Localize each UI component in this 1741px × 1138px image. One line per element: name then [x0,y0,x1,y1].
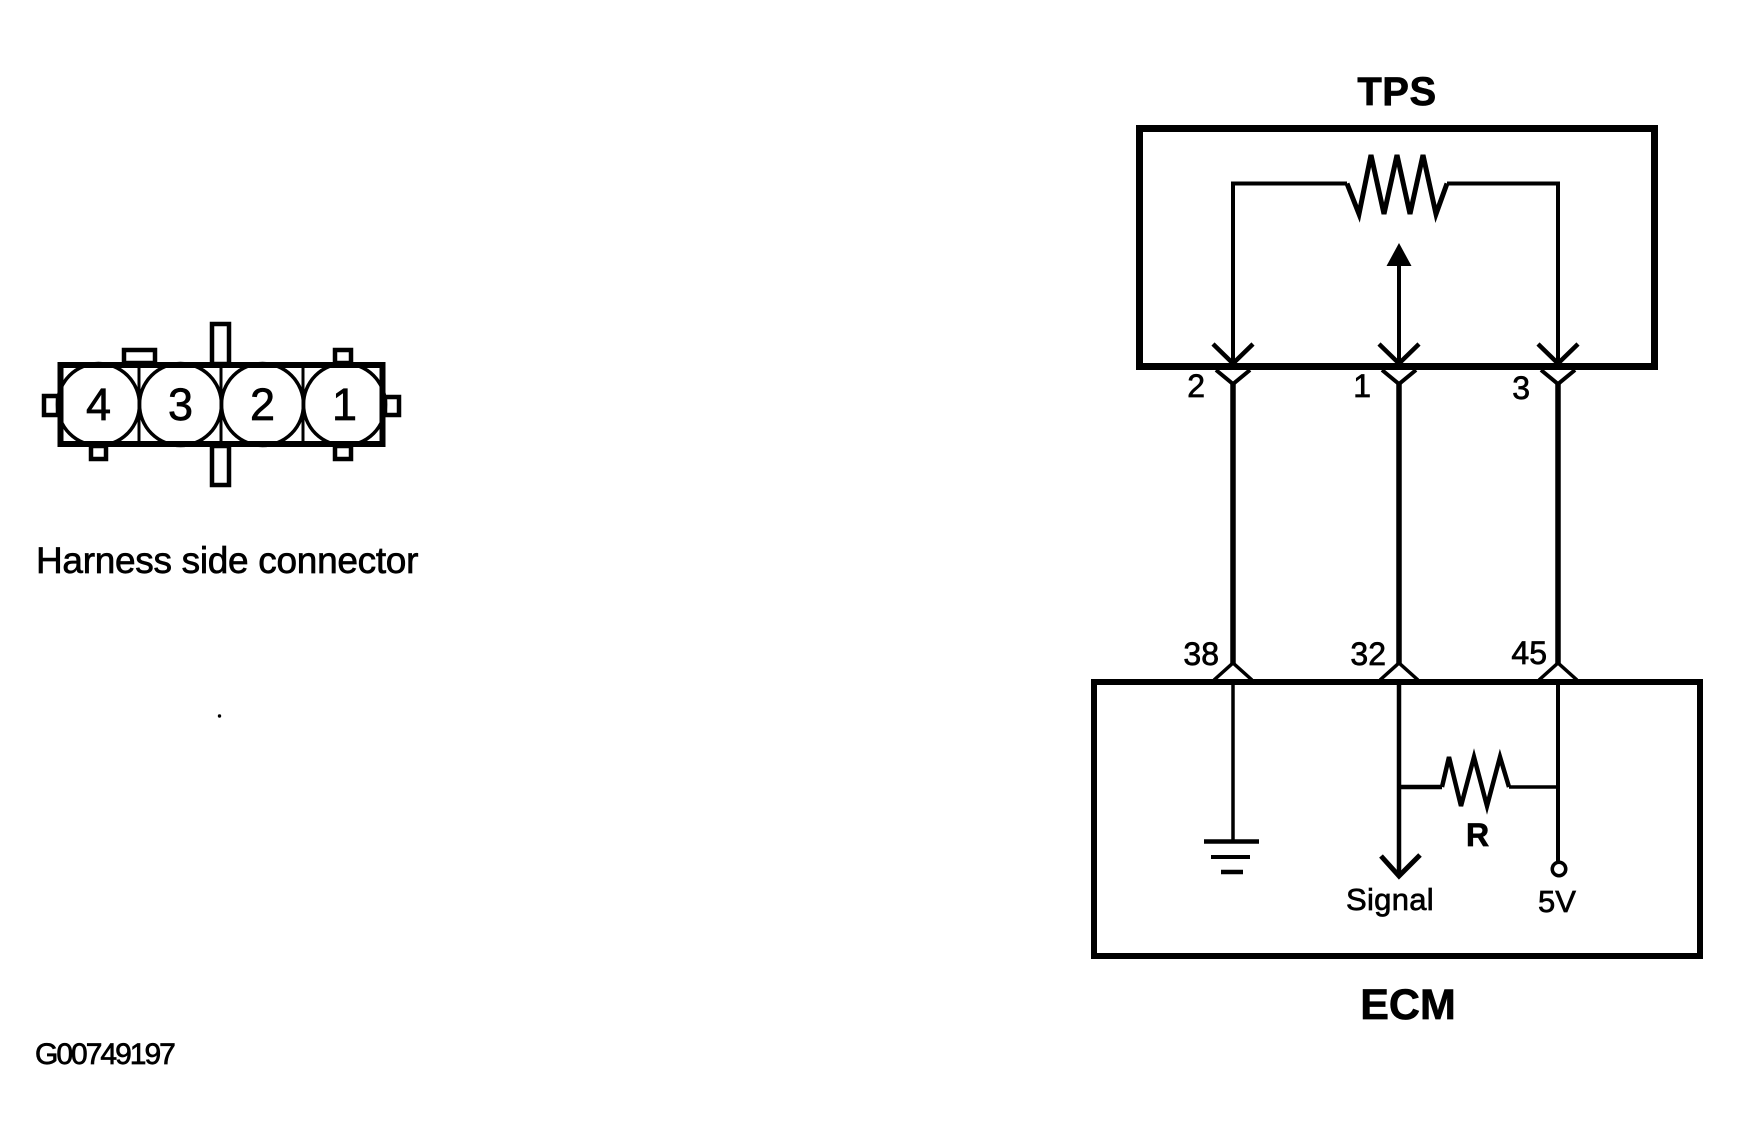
svg-text:2: 2 [1187,368,1205,404]
wire: TPS pin1 to ECM pin32 [1396,382,1402,664]
ECM pin 38 entry tent [1214,663,1252,680]
connector J1 harness side connector body [61,365,383,444]
connector J1: cavity divider 3 [302,364,305,445]
connector J1 harness side: top tab small left [124,350,155,363]
wire: pin 38 to ground [1231,682,1235,840]
svg-text:ECM: ECM [1360,981,1456,1029]
svg-text:TPS: TPS [1357,70,1436,114]
ECM pin 32 entry tent [1380,663,1418,680]
svg-text:5V: 5V [1538,884,1576,919]
wire: signal node to resistor R [1397,785,1442,790]
resistor R zigzag [1442,757,1509,806]
svg-text:G00749197: G00749197 [35,1038,175,1071]
resistor: TPS potentiometer element [1347,155,1447,214]
connector J1: cavity divider 2 [220,364,223,445]
connector J1: top right small tab [335,350,351,363]
wire: TPS pin2 to ECM pin38 [1230,382,1236,664]
svg-text:38: 38 [1183,636,1219,672]
wiper arrowhead pointing up [1387,243,1412,266]
connector J1: left side tab [44,396,58,415]
svg-text:Harness side connector: Harness side connector [36,540,418,581]
connector J1: top tall center tab [212,324,229,364]
wire: TPS pin3 to ECM pin45 [1555,382,1561,664]
ground symbol bar 2 [1211,855,1250,859]
connector J1: bottom right small tab [335,446,351,459]
svg-text:Signal: Signal [1346,882,1434,917]
TPS box [1140,129,1655,367]
connector J1: pin 4 cavity circle [58,364,140,446]
wire: TPS pot left lead (pin 2 side) [1233,184,1347,364]
wire: pin 32 signal line [1397,682,1402,875]
TPS pin 3 arrowhead into box edge [1538,344,1578,364]
connector J1: pin 1 cavity circle [304,364,386,446]
connector J1: bottom left small tab [91,446,106,459]
ECM pin 45 entry tent [1539,663,1577,680]
ground symbol bar 3 [1221,870,1243,875]
TPS pin 3 socket Y [1541,370,1575,384]
svg-text:3: 3 [1512,370,1530,406]
5V terminal circle [1552,862,1566,876]
TPS pin 2 socket Y [1216,370,1250,384]
svg-text:2: 2 [250,379,275,430]
TPS pin 1 socket Y [1382,370,1416,384]
wire: TPS wiper (pin 1) [1397,262,1401,363]
svg-text:4: 4 [86,379,111,430]
connector J1: pin 3 cavity circle [140,364,222,446]
wire: TPS pot right lead (pin 3 side) [1447,184,1558,364]
connector J1: right side tab [385,397,399,415]
stray scan dot [218,714,221,717]
TPS pin 2 arrowhead into box edge [1213,344,1253,364]
ECM box [1094,682,1700,956]
connector J1: pin 2 cavity circle [222,364,304,446]
wire: pin 45 to 5V terminal [1556,682,1560,861]
connector J1: cavity divider 1 [138,364,141,445]
svg-text:45: 45 [1511,635,1547,671]
ground symbol bar 1 [1204,839,1259,844]
svg-text:R: R [1466,817,1489,853]
svg-text:3: 3 [168,379,193,430]
connector J1: bottom tall center tab [212,446,229,485]
svg-text:1: 1 [1353,368,1371,404]
signal arrowhead down [1381,855,1420,876]
svg-text:32: 32 [1350,636,1386,672]
svg-text:1: 1 [332,379,357,430]
wire: resistor R to 5V line [1509,785,1558,789]
TPS pin 1 arrowhead into box edge [1379,344,1419,364]
